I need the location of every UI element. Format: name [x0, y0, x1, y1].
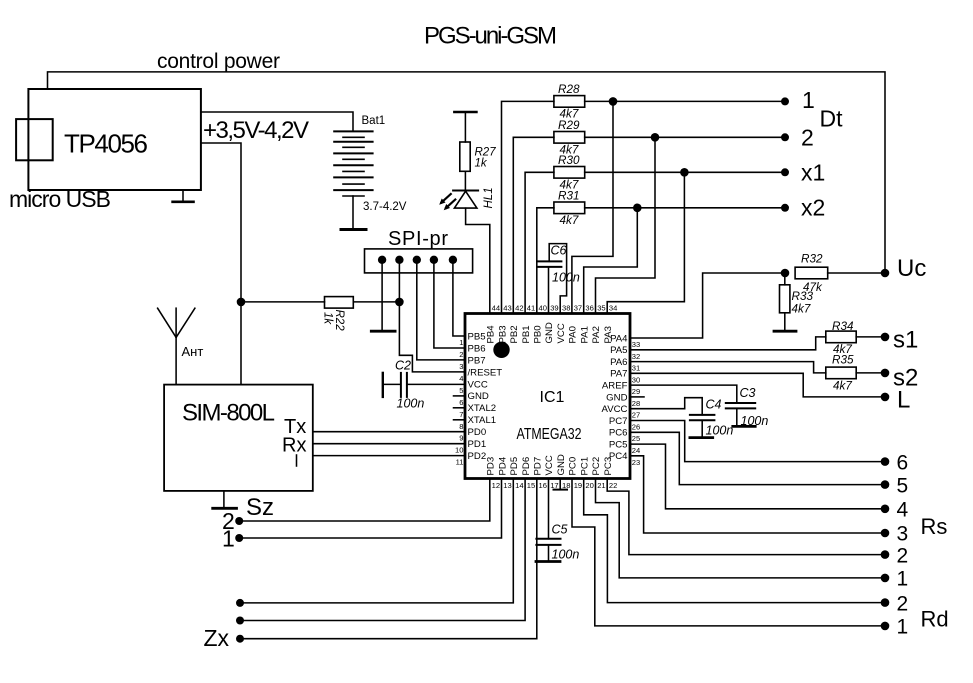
svg-text:PC4: PC4 [609, 451, 628, 462]
svg-text:Ант: Ант [182, 344, 204, 359]
wire Zx3 to IC PD7 [240, 479, 537, 639]
antenna Ант [175, 308, 177, 384]
svg-text:VCC: VCC [544, 455, 555, 475]
svg-text:100n: 100n [552, 271, 580, 285]
svg-text:Bat1: Bat1 [362, 115, 386, 127]
svg-text:3.7-4.2V: 3.7-4.2V [363, 201, 407, 213]
svg-text:15: 15 [527, 481, 535, 490]
wire SIM Rx to IC PD1 [313, 443, 465, 445]
svg-text:PD0: PD0 [468, 427, 487, 438]
wire R28 junction to IC pin 37 PA0 [572, 101, 613, 313]
node junction R22/SPI pin2 [395, 298, 404, 307]
svg-text:C6: C6 [551, 244, 567, 258]
svg-text:1k: 1k [322, 312, 334, 325]
connector micro USB [16, 119, 53, 160]
terminal Zx row3 [236, 635, 244, 643]
svg-text:40: 40 [539, 304, 547, 313]
resistor R22 [241, 301, 325, 303]
svg-text:R28: R28 [558, 83, 580, 96]
wire R30 junction to IC pin 34 PA3 [607, 172, 684, 313]
svg-text:PD1: PD1 [468, 439, 487, 450]
resistor R29 net: pin42 to Dt2 [513, 137, 554, 313]
svg-text:PA1: PA1 [579, 326, 590, 343]
terminal Dt1 [781, 97, 789, 105]
wire SPI pin5 to PB5 [453, 260, 465, 336]
wire PA4 to R32/R33 junction [630, 273, 785, 338]
svg-text:PA0: PA0 [568, 326, 579, 343]
svg-text:/RESET: /RESET [468, 367, 503, 378]
svg-text:100n: 100n [397, 397, 425, 411]
svg-text:PD6: PD6 [521, 457, 532, 476]
power tap above R27 [454, 111, 476, 114]
svg-text:R35: R35 [832, 354, 854, 367]
svg-text:PA7: PA7 [610, 369, 627, 380]
wire pin21 PC2 to terminal Rs1 [596, 479, 886, 578]
IC U1 ATMEGA32 box [465, 314, 630, 479]
svg-text:26: 26 [632, 423, 640, 432]
svg-text:12: 12 [492, 481, 500, 490]
IC1 bare pin stubs (GND,XTAL2,XTAL1 left; GND right; GND bottom) [454, 395, 466, 397]
node junction TP/R22 [237, 298, 246, 307]
svg-text:Rs: Rs [921, 514, 948, 539]
svg-text:11: 11 [456, 458, 464, 467]
wire R27 to HL1 [464, 171, 466, 190]
svg-text:C5: C5 [552, 523, 568, 537]
svg-text:37: 37 [574, 304, 582, 313]
wire pin19 PC0 to terminal Rd1 [572, 479, 885, 626]
svg-text:ATMEGA32: ATMEGA32 [517, 426, 582, 443]
svg-text:R22: R22 [333, 310, 345, 332]
ground under C3 [733, 425, 755, 428]
svg-text:PD7: PD7 [533, 457, 544, 476]
svg-text:1: 1 [802, 87, 815, 113]
node junction R28 / PA0 [609, 97, 618, 106]
svg-text:PC1: PC1 [579, 457, 590, 476]
svg-text:x2: x2 [801, 195, 825, 221]
svg-text:PA2: PA2 [591, 326, 602, 343]
svg-text:AVCC: AVCC [602, 404, 628, 415]
node junction R30 / PA3 [680, 168, 689, 177]
svg-text:PB1: PB1 [521, 325, 532, 343]
svg-text:29: 29 [632, 387, 640, 396]
svg-text:C4: C4 [706, 398, 722, 412]
wire Sz1 to IC PD4 [239, 479, 501, 539]
svg-text:Dt: Dt [820, 106, 844, 132]
svg-text:28: 28 [632, 399, 640, 408]
svg-text:PB0: PB0 [533, 325, 544, 343]
svg-text:R33: R33 [792, 290, 814, 303]
svg-text:PC6: PC6 [609, 428, 628, 439]
wire PC6 to terminal 5 [630, 432, 885, 484]
svg-text:PA4: PA4 [610, 333, 628, 344]
svg-text:PD2: PD2 [468, 451, 487, 462]
terminal s1 [881, 333, 890, 342]
ground under C4 [690, 436, 713, 439]
svg-text:AREF: AREF [602, 381, 628, 392]
terminal x1 [781, 168, 789, 176]
svg-text:4k7: 4k7 [792, 303, 811, 316]
svg-text:PC7: PC7 [609, 416, 628, 427]
svg-text:1: 1 [222, 526, 235, 552]
svg-text:R29: R29 [558, 119, 580, 132]
svg-text:21: 21 [597, 481, 605, 490]
svg-text:Zx: Zx [204, 625, 230, 651]
svg-text:31: 31 [632, 364, 640, 373]
svg-text:Rx: Rx [282, 435, 306, 457]
svg-text:x1: x1 [801, 160, 825, 186]
svg-text:6: 6 [897, 451, 909, 474]
wire Sz2 to IC PD3 [239, 479, 490, 522]
wire pin20 PC1 to terminal Rd2 [584, 479, 885, 603]
terminal Dt2 [781, 133, 789, 141]
svg-text:2: 2 [459, 350, 463, 359]
svg-text:100n: 100n [552, 548, 580, 562]
svg-text:4k7: 4k7 [560, 214, 579, 227]
node junction R32/R33 [781, 269, 790, 278]
svg-text:14: 14 [515, 481, 523, 490]
terminal L [881, 393, 890, 402]
terminal Uc [881, 269, 890, 278]
svg-text:R30: R30 [558, 154, 580, 167]
svg-text:34: 34 [609, 304, 617, 313]
wire PC4 to terminal 3 [630, 456, 885, 533]
wire SPI pin1 to ground [381, 260, 383, 331]
svg-text:R34: R34 [832, 320, 854, 333]
svg-text:PB6: PB6 [468, 343, 486, 354]
resistor R33 [784, 273, 786, 285]
svg-text:PC0: PC0 [568, 457, 579, 476]
svg-text:27: 27 [632, 411, 640, 420]
ground under TP4056 [182, 190, 184, 201]
svg-text:SPI-pr: SPI-pr [388, 228, 448, 250]
svg-text:32: 32 [632, 352, 640, 361]
svg-text:VCC: VCC [468, 379, 488, 390]
svg-text:C2: C2 [395, 359, 411, 373]
wire HL1 to IC pin 44 [466, 208, 490, 313]
svg-text:micro USB: micro USB [9, 186, 111, 212]
svg-text:25: 25 [632, 434, 640, 443]
svg-text:33: 33 [632, 340, 640, 349]
svg-text:s1: s1 [893, 327, 918, 354]
svg-text:R31: R31 [558, 189, 579, 202]
svg-text:IC1: IC1 [540, 389, 565, 406]
svg-text:XTAL2: XTAL2 [468, 403, 497, 414]
resistor R35 [826, 367, 856, 379]
node junction R31 / PA1 [633, 204, 642, 213]
wire PA5 to R34 [630, 337, 826, 350]
svg-text:Sz: Sz [246, 494, 274, 521]
svg-text:16: 16 [539, 481, 547, 490]
svg-text:4: 4 [459, 374, 463, 383]
svg-text:1: 1 [897, 568, 909, 591]
svg-text:XTAL1: XTAL1 [468, 415, 497, 426]
resistor R32 [795, 267, 828, 279]
svg-text:PB7: PB7 [468, 355, 486, 366]
svg-text:PB3: PB3 [497, 325, 508, 343]
resistor R34 [826, 331, 856, 343]
svg-text:L: L [897, 387, 910, 414]
wire Zx1 to IC PD5 [240, 479, 513, 603]
svg-text:Rd: Rd [921, 607, 949, 632]
ground under C5 [536, 560, 560, 563]
wire pin22 PC3 to terminal Rs2 [607, 479, 885, 555]
svg-text:R32: R32 [801, 253, 823, 266]
svg-text:13: 13 [503, 481, 511, 490]
svg-text:PB5: PB5 [468, 332, 486, 343]
svg-text:23: 23 [632, 458, 640, 467]
svg-text:3: 3 [459, 362, 463, 371]
wire PA7 to L [630, 373, 885, 397]
svg-text:6: 6 [459, 398, 463, 407]
svg-text:10: 10 [455, 446, 463, 455]
svg-text:SIM-800L: SIM-800L [182, 400, 275, 427]
ground pin18 [559, 479, 561, 490]
svg-text:9: 9 [459, 434, 463, 443]
wire SPI pin3 to PB7 [417, 260, 465, 360]
svg-text:2: 2 [801, 125, 814, 151]
svg-text:39: 39 [550, 304, 558, 313]
svg-text:VCC: VCC [556, 323, 567, 343]
capacitor C4 on AVCC [630, 398, 702, 415]
terminal Zx row2 [236, 617, 244, 625]
svg-text:GND: GND [556, 454, 567, 475]
module TP4056 [28, 89, 201, 190]
svg-text:1k: 1k [475, 158, 488, 170]
module SIM-800L [164, 385, 313, 491]
resistor R30 net: pin41 to x1 [525, 172, 554, 313]
wire SIM Tx to IC PD0 [313, 431, 465, 433]
svg-text:1: 1 [459, 338, 463, 347]
ground under SIM-800L [223, 491, 225, 507]
IC1 pin numbers and labels [455, 304, 640, 491]
svg-text:GND: GND [606, 392, 627, 403]
svg-text:41: 41 [527, 304, 535, 313]
svg-text:8: 8 [459, 422, 463, 431]
wire PC7 to terminal 6 [630, 421, 885, 462]
svg-text:PD3: PD3 [486, 457, 497, 476]
svg-text:38: 38 [562, 304, 570, 313]
svg-text:control power: control power [157, 50, 280, 73]
svg-text:2: 2 [897, 592, 909, 615]
svg-text:22: 22 [609, 481, 617, 490]
wire R29 junction to IC pin 35 PA2 [596, 137, 656, 313]
capacitor C3 on AREF [630, 385, 737, 403]
svg-text:35: 35 [597, 304, 605, 313]
wire Zx2 to IC PD6 [240, 479, 525, 621]
svg-text:TP4056: TP4056 [64, 129, 148, 159]
ground under R33 [774, 330, 796, 333]
resistor R31 net: pin40 to x2 [537, 208, 554, 314]
wire PC5 to terminal 4 [630, 444, 885, 509]
wire PA6 to R35 [630, 362, 826, 373]
svg-text:+3,5V-4,2V: +3,5V-4,2V [203, 117, 309, 144]
resistor R28 net: pin43 to Dt1 [502, 101, 554, 313]
svg-text:4k7: 4k7 [833, 380, 852, 393]
svg-text:C3: C3 [740, 386, 756, 400]
svg-text:7: 7 [459, 410, 463, 419]
svg-text:30: 30 [632, 375, 640, 384]
wire TP4056 to R22 and SIM [201, 143, 241, 385]
svg-text:PGS-uni-GSM: PGS-uni-GSM [424, 23, 557, 50]
terminal x2 [781, 204, 789, 212]
svg-text:PB2: PB2 [509, 325, 520, 343]
ground under Bat1 [341, 228, 366, 231]
wire SIM to IC PD2 [313, 455, 465, 457]
svg-text:4: 4 [897, 499, 909, 522]
svg-text:20: 20 [585, 481, 593, 490]
svg-text:PA5: PA5 [610, 345, 627, 356]
terminal s2 [881, 369, 890, 378]
wire SPI pin2 to /RESET [399, 260, 465, 372]
svg-text:GND: GND [468, 391, 489, 402]
svg-text:24: 24 [632, 446, 640, 455]
node junction R29 / PA2 [651, 133, 660, 142]
svg-text:44: 44 [492, 304, 500, 313]
svg-text:GND: GND [544, 322, 555, 343]
svg-text:PA6: PA6 [610, 357, 627, 368]
capacitor C5 on VCC pin17 [548, 479, 550, 539]
svg-text:PB4: PB4 [486, 325, 497, 344]
wire R31 junction to IC pin 36 PA1 [584, 208, 638, 314]
wire Bat1 to ground [352, 196, 354, 228]
svg-text:5: 5 [459, 386, 463, 395]
svg-text:43: 43 [503, 304, 511, 313]
wire control power net: TP4056 top to Uc [48, 72, 886, 273]
wire TP4056 to Bat1 [201, 112, 353, 131]
svg-text:3: 3 [897, 522, 909, 545]
svg-text:Uc: Uc [897, 255, 926, 282]
svg-text:19: 19 [574, 481, 582, 490]
svg-text:PD4: PD4 [497, 456, 508, 475]
svg-text:PC2: PC2 [591, 457, 602, 476]
svg-text:1: 1 [897, 616, 909, 639]
svg-text:PC5: PC5 [609, 439, 628, 450]
LED HL1 [453, 190, 478, 192]
resistor R27 [460, 142, 470, 171]
svg-text:2: 2 [897, 544, 909, 567]
svg-text:PD5: PD5 [509, 457, 520, 476]
svg-text:5: 5 [897, 474, 909, 497]
svg-text:36: 36 [585, 304, 593, 313]
svg-text:HL1: HL1 [483, 187, 495, 208]
wire SPI pin4 to PB6 [434, 260, 465, 348]
svg-text:100n: 100n [706, 424, 734, 438]
terminal Zx row1 [236, 599, 244, 607]
svg-text:42: 42 [515, 304, 523, 313]
